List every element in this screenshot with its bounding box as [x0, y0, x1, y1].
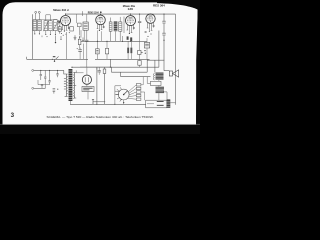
node mid bus junctions — [97, 41, 131, 42]
page curl shadow top-right — [157, 0, 200, 11]
small mark c — [60, 36, 61, 40]
node tone cap dot — [163, 40, 164, 41]
svg-text:3: 3 — [11, 112, 15, 119]
tube V2 — [96, 14, 106, 25]
node V1 cathode dot — [64, 30, 65, 31]
variable capacitor arrow 2 — [53, 20, 59, 31]
node dots R5 — [141, 50, 145, 54]
rectifier tube V5 — [82, 75, 91, 84]
wire selector stubs — [115, 86, 121, 105]
antenna terminal left — [35, 11, 37, 19]
node bus C dots — [96, 67, 115, 105]
wire bus A right — [95, 58, 150, 60]
wire mid bus — [81, 40, 147, 42]
tap box 220V — [136, 98, 141, 100]
wire selector to taps — [128, 85, 137, 99]
resistor blobs below V3 — [127, 36, 133, 41]
page (white sheet with rounded top-left corner) — [3, 2, 198, 134]
wire coil top link — [33, 19, 57, 21]
wire rectifier side links — [76, 70, 83, 72]
node coil commons — [34, 33, 56, 35]
wire taps to right — [141, 77, 145, 101]
wire speaker vertical b — [154, 60, 156, 72]
tube V4 pin leads — [147, 22, 155, 30]
resistor under V1 — [70, 27, 74, 31]
wire rectifier top line — [80, 66, 112, 68]
tube V3 pin leads — [127, 25, 135, 33]
power transformer core — [69, 69, 73, 101]
speaker cone — [173, 70, 179, 77]
wire R3 leads — [128, 41, 131, 59]
variable capacitor arrow 1 — [43, 20, 49, 31]
wire top bus — [66, 13, 176, 15]
node selector contacts — [118, 91, 122, 100]
wire V1 grid link — [57, 23, 60, 25]
wire nested power line 2 — [121, 72, 151, 76]
coil L5 — [54, 20, 58, 31]
ground symbol mid — [74, 35, 77, 40]
svg-text:SCHEMA. — Tipo T 530 — Radio T: SCHEMA. — Tipo T 530 — Radio Telefunken … — [47, 115, 154, 119]
wire HT vertical 2 — [104, 67, 106, 104]
capacitor ladder c3 — [48, 70, 50, 84]
terminal phono lower — [32, 87, 34, 89]
wire left antenna down-lead — [31, 14, 33, 59]
capacitor Ca — [85, 40, 88, 41]
capacitor stub x57.5 — [56, 70, 58, 77]
capacitor grid V2 — [78, 23, 82, 27]
resistor Ra — [78, 37, 81, 49]
wire output links — [147, 77, 159, 101]
tap box 145V — [136, 91, 141, 93]
connector block striped — [167, 99, 171, 107]
antenna terminal right — [38, 11, 40, 19]
capacitor to ground mid-left — [55, 35, 56, 43]
output transformer winding — [154, 73, 155, 80]
wire connector to frame — [170, 102, 175, 104]
switch contacts lower-left — [53, 89, 59, 94]
wire coil bottom leads — [35, 31, 56, 35]
wire speaker feed — [164, 70, 169, 72]
voltage selector switch — [116, 87, 129, 101]
IF transformer T1 — [83, 22, 88, 30]
resistor R3b — [130, 48, 132, 54]
capacitor V4 cathode — [145, 31, 147, 32]
wire output top link — [147, 59, 164, 61]
capacitor filter electrolytic — [96, 67, 101, 75]
wire nested power line 1 — [112, 67, 148, 72]
wire T2 leads — [111, 17, 124, 42]
resistor R4 — [138, 50, 141, 59]
capacitor Cb electrolytic — [77, 48, 82, 60]
node with stub — [82, 37, 83, 41]
tap box 160V — [136, 94, 141, 96]
tap box 125V — [136, 87, 141, 89]
capacitor grid blob V1 — [58, 21, 60, 24]
resistor R2 — [105, 41, 108, 59]
node selector bottom dot — [123, 102, 124, 103]
small mark b — [47, 36, 48, 37]
capacitor grid cap V2 blob — [100, 11, 102, 13]
capacitor beside V1 — [58, 25, 61, 34]
coil L3 — [44, 21, 48, 31]
capacitor C4 coupling — [138, 14, 141, 50]
svg-text:RES 364: RES 364 — [153, 3, 165, 7]
svg-text:Möwe 334 d: Möwe 334 d — [53, 8, 69, 12]
small mark a — [41, 36, 43, 38]
svg-text:RENS 1264: RENS 1264 — [88, 11, 99, 15]
capacitor tone C5 plates — [162, 21, 165, 35]
wire rectifier top lead — [86, 68, 88, 76]
scan background — [0, 0, 200, 134]
wire HT vertical 1 — [96, 67, 98, 104]
field coil choke — [156, 87, 165, 93]
wire phono line lower — [34, 87, 46, 89]
wire bus A left end tick — [26, 57, 28, 60]
wire V1 cathode to bus A — [65, 32, 67, 59]
wire tone cap vertical — [163, 14, 165, 71]
coil L4 — [49, 21, 53, 31]
wire bus link x110.3 — [109, 59, 111, 67]
tube V1 — [61, 14, 71, 25]
bottom black band — [0, 125, 200, 134]
hum pot box — [151, 81, 162, 85]
tube V1 pin leads — [62, 25, 70, 31]
label switch tiny — [53, 56, 56, 57]
node V2 cathode dot — [99, 30, 100, 31]
wire bus B — [72, 66, 159, 68]
wire transformer bottom lead — [69, 101, 71, 105]
node phono line dots — [40, 70, 58, 71]
wire selector bottom — [123, 100, 125, 105]
terminal strip box — [146, 100, 167, 108]
wire rectifier to fuse — [87, 84, 88, 99]
node dots under V4 — [147, 31, 151, 37]
tube V3 — [126, 14, 136, 26]
coil L2 — [38, 20, 42, 31]
right edge black strip — [196, 9, 200, 134]
wire bus A left — [27, 58, 88, 60]
node dots under V1 — [61, 32, 70, 36]
wire speaker vertical a — [146, 59, 148, 72]
resistor bleeder — [103, 69, 106, 74]
IF transformer T2 primary box — [109, 22, 112, 31]
wire phono line upper — [34, 69, 64, 71]
power transformer secondary winding — [73, 72, 76, 98]
wire grid lead x82.4 — [81, 11, 83, 16]
wire V3 to mid bus — [122, 36, 124, 41]
resistor R1 value box — [96, 41, 100, 59]
tap box 110V — [136, 84, 141, 86]
power transformer primary winding — [64, 70, 68, 96]
wire choke to connector — [163, 92, 167, 100]
wire bottom bus C — [70, 103, 146, 105]
coil L1 — [33, 20, 37, 31]
wire bus B right riser — [158, 31, 160, 68]
resistor R4b — [138, 59, 141, 67]
node V3 cathode dot — [129, 33, 130, 34]
terminal phono upper — [32, 69, 34, 71]
speaker coil — [169, 71, 172, 76]
tube V4 — [146, 14, 155, 23]
wire gang capacitor stubs — [46, 15, 51, 21]
IF transformer T2 secondary box — [119, 22, 122, 31]
node Ra top — [79, 36, 80, 37]
mains plug lead — [92, 99, 105, 104]
fuse box with rating — [82, 87, 94, 92]
resistor R5 box — [144, 38, 149, 59]
node bus B left end — [71, 67, 72, 68]
capacitor ladder c1 — [40, 70, 42, 80]
volume control on bus A — [52, 56, 59, 62]
wire ladder bottom — [38, 80, 50, 85]
wire V2 pins to mid bus — [98, 30, 102, 41]
tube V2 pin leads — [97, 24, 105, 30]
output transformer core — [156, 73, 164, 81]
wire T1 leads — [76, 14, 87, 67]
IF transformer T2 core coil — [114, 21, 118, 31]
node top bus junctions — [65, 14, 165, 15]
wire right frame vertical — [175, 14, 177, 105]
wire vertical x83.6 — [83, 44, 85, 60]
capacitor ladder c2 — [44, 70, 46, 88]
resistor R3a — [127, 48, 129, 54]
capacitor ladder c4 — [41, 84, 43, 88]
svg-text:126: 126 — [128, 8, 134, 11]
